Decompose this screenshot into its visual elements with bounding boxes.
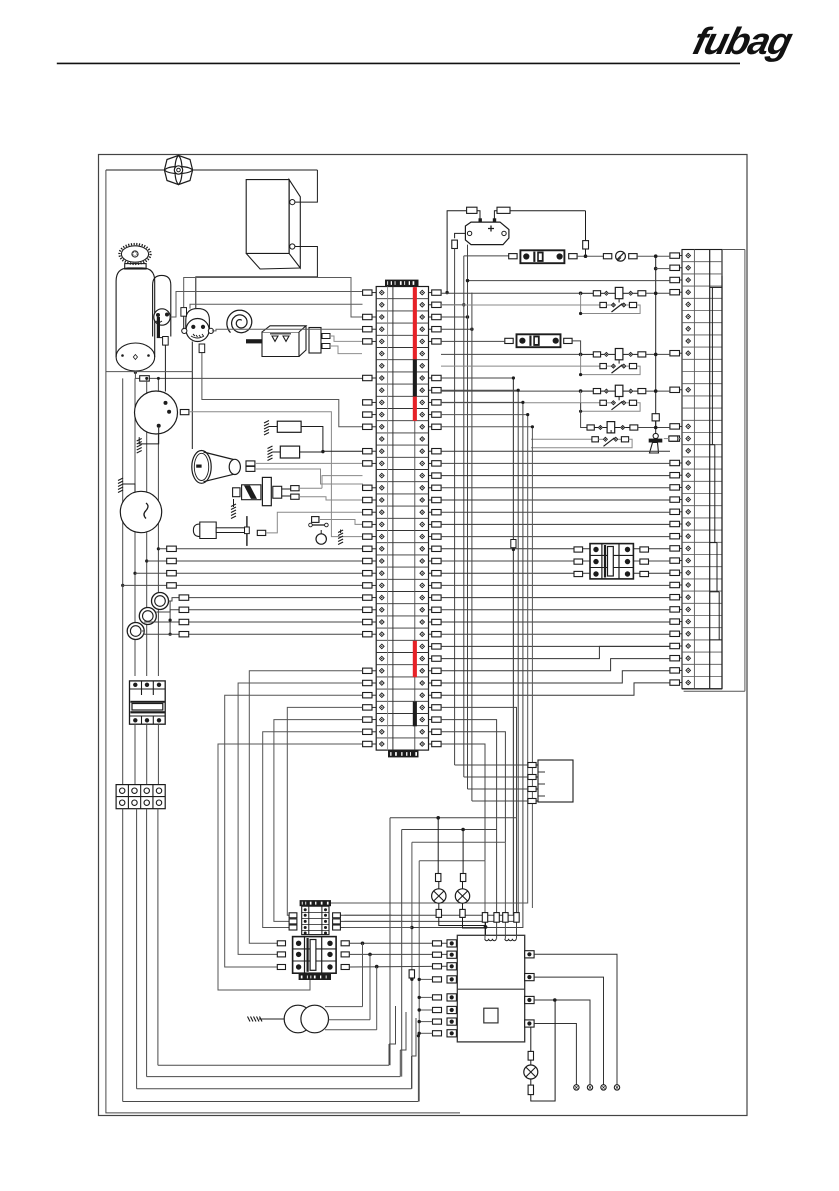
- KM2 connectors right: [640, 547, 649, 552]
- fuse on M3 wire: [184, 278, 363, 318]
- wire M2 to X1 row0: [170, 292, 362, 318]
- X1 red bar 2: [413, 397, 417, 421]
- regulator triangles: [272, 336, 289, 341]
- wire R2 right: [300, 451, 323, 453]
- CT ring 1: [152, 593, 169, 610]
- wires X1 to X2 middle band: [441, 450, 670, 452]
- wire band row21: [157, 547, 160, 550]
- X1 red bar bottom: [413, 641, 417, 677]
- X1 top header: [385, 280, 419, 287]
- X2 row lines: [682, 261, 722, 263]
- engine bottom wire to X1 row7: [134, 371, 137, 374]
- wire rectifier left to fuse drop: [455, 233, 466, 238]
- relay K2 switch feed: [441, 365, 600, 367]
- wires below terminal block: [122, 809, 124, 1102]
- nest horizontals lamps: [390, 817, 517, 819]
- ground R2: [268, 446, 273, 461]
- wire FU2 right to relay bus: [572, 341, 581, 355]
- regulator output stub 2: [322, 344, 330, 349]
- fuse F1 top: [467, 207, 477, 213]
- relay K3 switch blade: [612, 401, 623, 410]
- FU1 left connector: [509, 254, 517, 259]
- relay K1 out connector: [638, 291, 646, 296]
- resistor R4: [494, 913, 499, 923]
- AVR left connector rects: [433, 941, 442, 946]
- relay K2 switch loop: [581, 354, 641, 374]
- relay K2 coil wire: [441, 353, 581, 355]
- buzzer connector: [669, 436, 678, 441]
- wire spark top to X1 row16 upper: [299, 487, 322, 489]
- AVR left terminals: [447, 940, 456, 947]
- wire tank base link: [106, 371, 192, 373]
- cascade wires: [389, 1006, 396, 1044]
- distributor circle: [135, 391, 178, 434]
- oil pressure switch: [312, 517, 319, 523]
- wire band row22: [145, 559, 148, 562]
- distributor output connector: [180, 410, 189, 415]
- X2 top line extension: [722, 249, 745, 251]
- X1 black bar: [413, 359, 417, 396]
- contactor KM1: [293, 937, 337, 974]
- AVR left feed wires lower: [419, 978, 432, 980]
- indicator lamp with slash: [603, 254, 611, 259]
- wire band row23: [133, 572, 136, 575]
- X1 right connectors: [432, 290, 441, 295]
- X1 right diamonds: [420, 290, 425, 295]
- fan M1: [164, 155, 192, 184]
- glow spiral: [227, 310, 252, 333]
- fuse lamp chain below AVR: [530, 1027, 532, 1051]
- bus vertical right margin outer: [744, 250, 746, 692]
- ring link vertical: [169, 601, 171, 634]
- rectifier VD1: [465, 222, 509, 245]
- small cylinder: [153, 275, 171, 336]
- horn cone: [192, 451, 241, 484]
- relay K2 switch connector right: [629, 364, 636, 369]
- regulator box 3D: [262, 326, 306, 357]
- relay K3 fuse left: [593, 389, 600, 394]
- wires X1 left bottom to mini block: [287, 707, 362, 915]
- M3 ear right: [208, 328, 213, 333]
- mini terminal block XS1: [300, 900, 331, 906]
- wire FU2 left to X1 row4: [441, 340, 505, 342]
- vertical M2b down: [202, 345, 363, 427]
- wire fan to battery riser: [193, 169, 318, 171]
- spark plug assembly: [233, 488, 240, 497]
- horn connector: [246, 461, 255, 466]
- relay K1 switch connector right: [629, 302, 636, 307]
- fuse on bundle wire: [511, 540, 516, 548]
- stub F1 to rectifier: [477, 211, 480, 220]
- spark connector bottom: [291, 494, 299, 499]
- bus bottom horizontal: [684, 690, 745, 692]
- left vertical wire D: [157, 378, 159, 676]
- bus vertical right margin inner: [721, 276, 723, 689]
- X1 right stubs to bundle: [441, 304, 464, 306]
- stepped wires X1 bottom to X2 bottom: [441, 646, 670, 658]
- relay K2 switch blade: [612, 365, 623, 374]
- ground transformer: [248, 1017, 263, 1022]
- X1 row lines: [376, 298, 428, 300]
- relay K2 switch connector left: [600, 364, 607, 369]
- XS1 right connectors: [333, 913, 341, 918]
- bottom left nest wires: [158, 1064, 389, 1066]
- relay bus vertical: [655, 256, 657, 427]
- wire ring2 to X1 row26: [156, 610, 362, 612]
- wire F1 left down: [447, 211, 467, 293]
- ring gear: [119, 244, 150, 264]
- X2 row1 feed from bus: [654, 267, 658, 271]
- wires X1 left bottom to KM1: [249, 671, 362, 944]
- regulator output stub 1: [322, 334, 330, 339]
- vertical bundle wire c: [467, 245, 469, 281]
- relay K3 coil: [615, 385, 623, 396]
- wires AVR right to test terminals: [534, 954, 617, 1085]
- left vertical A continues: [122, 584, 124, 784]
- ground spark: [233, 499, 235, 507]
- bus step verticals: [711, 287, 713, 444]
- KM2 connectors left: [574, 547, 583, 552]
- connector block XS2: [538, 760, 573, 802]
- CT ring 2: [139, 608, 156, 625]
- AVR right terminals: [525, 951, 534, 958]
- KM1 right connectors: [341, 941, 349, 946]
- outer border of diagram: [99, 155, 748, 1116]
- X1 red bar top: [413, 287, 417, 359]
- resistor R5: [503, 913, 508, 923]
- wire battery top terminal: [295, 170, 318, 202]
- wires KM1 to AVR: [349, 942, 447, 944]
- battery GB1 3D box: [246, 180, 300, 269]
- alternator G1: [120, 491, 161, 532]
- header rule: [57, 62, 740, 64]
- AVR top coils: [485, 939, 496, 941]
- vertical bundle wire d: [471, 293, 473, 801]
- wire M3 to X1 row3: [212, 329, 363, 331]
- X1 black bar bottom: [413, 702, 417, 727]
- wire lamp to X2 row0: [637, 255, 670, 257]
- relay K1 switch blade: [612, 304, 623, 313]
- left vertical wire A: [122, 378, 124, 584]
- lamp HL2 chain: [462, 830, 464, 874]
- relay K3 coil wire: [441, 390, 581, 392]
- X1 left connectors: [363, 290, 372, 295]
- fuse under rectifier: [452, 240, 458, 248]
- fuse above junction: [583, 241, 589, 249]
- relay K1 switch connector left: [600, 302, 607, 307]
- fuse cartridge FU2: [505, 338, 513, 343]
- CT ring 3: [127, 623, 144, 640]
- M3 ear left: [182, 328, 187, 333]
- wire battery bottom terminal: [196, 247, 318, 309]
- fuse on M2b wire: [199, 344, 205, 353]
- relay K4 coil wire: [581, 403, 587, 428]
- transformer T1: [284, 1005, 312, 1033]
- spark connector top: [291, 486, 299, 491]
- wire R1R2 to X1 row13: [323, 450, 363, 452]
- bus step horizontals: [710, 286, 722, 288]
- battery terminal top: [290, 200, 295, 205]
- resistor R1: [277, 421, 301, 432]
- relay K3 switch connector right: [629, 400, 636, 405]
- KM1 bottom header: [299, 974, 331, 980]
- wire FU1 feed: [464, 255, 509, 257]
- wire regulator to X1 row5: [330, 346, 362, 354]
- X1 inner verticals: [387, 287, 389, 751]
- AVR unit A1: [457, 935, 524, 1042]
- five vertical bundle: [340, 378, 513, 915]
- wire solenoid to X1 row18: [266, 512, 363, 533]
- Fubag logo: [689, 21, 796, 64]
- vertical bundle wire a: [454, 249, 456, 766]
- wire regulator to X1 row4: [330, 336, 362, 341]
- relay K3 out connector: [638, 389, 646, 394]
- wire ring1 to X1 row25: [169, 598, 363, 601]
- relay K3 switch connector left: [600, 400, 607, 405]
- wire F2 to FU1 junction: [510, 210, 586, 212]
- X2 diamonds: [686, 253, 691, 258]
- fuse on distributor wire: [163, 337, 169, 346]
- lamp HL1 chain: [437, 818, 439, 874]
- relay K3 switch feed: [441, 402, 600, 404]
- relay K4 switch: [531, 438, 592, 440]
- wire long to X2 row2: [468, 280, 671, 282]
- terminal strip X2 body: [682, 250, 722, 689]
- battery terminal bottom: [290, 244, 295, 249]
- X2 inner verticals: [693, 250, 695, 689]
- terminal strip X1 body: [376, 287, 428, 751]
- stub F2 to rectifier: [494, 211, 497, 220]
- wire R1 right: [301, 427, 323, 452]
- fuel solenoid Y1: [193, 522, 216, 539]
- fuse on riser: [409, 970, 414, 978]
- vertical bundle wire b: [463, 256, 465, 777]
- relay K1 coil: [615, 287, 623, 298]
- ground oil switch: [338, 530, 343, 545]
- spiral lead thick bar: [246, 339, 267, 343]
- terminal block XT1: [116, 785, 165, 809]
- FU1 right connector: [569, 254, 577, 259]
- lamp right connector: [629, 254, 637, 259]
- solenoid connector: [257, 530, 265, 535]
- wire ring3 to X1 row28: [142, 631, 363, 634]
- vertical M3 down: [191, 342, 193, 450]
- wire horn top to X1 row14: [255, 462, 363, 464]
- regulator connector block: [309, 328, 321, 354]
- buzzer HA1: [652, 414, 659, 421]
- relay K1 switch feed: [441, 304, 600, 306]
- X1 left diamonds: [380, 290, 385, 295]
- wires bundle to XS2: [455, 764, 528, 766]
- relay K2 out connector: [638, 352, 646, 357]
- fuse cartridge FU1: [520, 250, 564, 263]
- wire M3 top to X1 row1: [190, 304, 363, 308]
- fuse F2 top: [497, 207, 510, 213]
- wire horn bottom to X1 row16: [255, 469, 363, 488]
- transformer risers: [362, 943, 364, 1006]
- left vertical wire C: [146, 378, 148, 676]
- distributor ground wire: [139, 428, 159, 444]
- transformer output wires: [325, 1006, 363, 1008]
- wire oil switch to X1 row19: [319, 520, 363, 525]
- vertical engine to distributor: [164, 338, 166, 392]
- ground R1: [264, 421, 269, 436]
- left vertical wire B: [134, 378, 136, 676]
- resistor verticals to AVR: [516, 818, 518, 936]
- relay K2 coil: [615, 349, 623, 360]
- circuit breaker QF1: [130, 681, 166, 724]
- X2 left connectors: [670, 253, 680, 258]
- wire ring2b to X1 row27: [144, 621, 363, 623]
- wires breaker to terminal block: [134, 724, 136, 784]
- relay K3 switch loop: [581, 391, 641, 411]
- relay K4: [587, 425, 594, 430]
- XS1 left connectors: [289, 913, 297, 918]
- resistor R6: [514, 913, 519, 923]
- nest risers right: [388, 1044, 390, 1065]
- wire relay K1 out to X2: [655, 292, 657, 294]
- relay K1 switch loop: [581, 293, 641, 313]
- resistor R3: [482, 913, 487, 923]
- relay K2 fuse left: [593, 352, 600, 357]
- starter M3 motor: [186, 309, 210, 330]
- pump M2 small motor: [154, 309, 170, 325]
- outer nest wire from fan: [106, 170, 460, 1113]
- AVR inner square: [484, 1008, 498, 1023]
- M2 brush bar: [157, 317, 160, 338]
- KM1 left connectors: [277, 941, 285, 946]
- wire distributor to X1 row20: [189, 412, 363, 537]
- wire fan left to border: [106, 169, 165, 171]
- resistor R2: [280, 446, 299, 458]
- connector on engine wire: [140, 376, 150, 381]
- wire FU1 to lamp: [577, 255, 605, 257]
- test terminal circles: [574, 1085, 579, 1090]
- contactor KM2 3phase: [590, 544, 633, 579]
- wires X1 bottom to nest: [441, 707, 517, 817]
- relay K1 coil wire: [441, 292, 581, 294]
- ground alternator: [118, 478, 123, 493]
- engine cylinder tank: [116, 264, 155, 371]
- ground distributor: [137, 439, 142, 454]
- wire spark bottom to X1 row17: [299, 497, 362, 500]
- wire band row24: [121, 584, 124, 587]
- relay K1 fuse left: [593, 291, 600, 296]
- X1 bottom header: [388, 751, 419, 758]
- wires mini block right to nest verticals: [344, 914, 391, 916]
